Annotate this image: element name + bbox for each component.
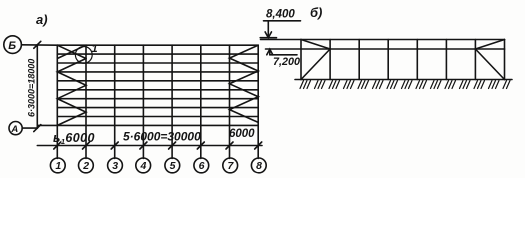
- dimension tick top: [34, 41, 41, 48]
- elevation lower chord (with left extension to 7.200 mark): [266, 48, 505, 50]
- svg-text:б): б): [310, 5, 322, 20]
- elevation left bay roof-strip diagonal: [301, 40, 330, 50]
- plan column lines 1-8 (extend down to numbered circles): [57, 45, 258, 158]
- svg-text:А: А: [10, 124, 18, 135]
- svg-text:5·6000=30000: 5·6000=30000: [123, 130, 201, 144]
- left bracing strip: zigzag diagonals: [57, 59, 86, 126]
- svg-text:2: 2: [82, 160, 89, 172]
- svg-text:8: 8: [256, 160, 262, 172]
- axis line from A circle: [22, 127, 37, 129]
- svg-text:3: 3: [112, 160, 118, 172]
- elevation ground line: [295, 79, 512, 81]
- svg-text:6000: 6000: [229, 128, 255, 140]
- elevation mark 7,200 leader stem: [269, 49, 271, 55]
- bottom dimension ticks at each column: [54, 142, 262, 149]
- elevation right bay roof-strip diagonal: [475, 40, 504, 50]
- elevation left bay wall diagonal: [301, 49, 330, 80]
- svg-text:ь16000: ь16000: [53, 131, 95, 146]
- detail callout circle 1: [75, 47, 92, 64]
- plan horizontal grid lines (10 lines): [37, 45, 258, 125]
- elevation upper chord (with left extension to 8.400 mark): [261, 39, 505, 41]
- elevation mark 8,400 shelf line: [264, 20, 301, 22]
- numbered column circles 1-8: [50, 158, 266, 173]
- elevation mark 7,200 shelf line: [270, 54, 297, 56]
- elevation mark 8,400 level line: [260, 37, 276, 39]
- svg-text:7,200: 7,200: [273, 56, 300, 68]
- bottom dimension line: [37, 145, 262, 147]
- left bracing strip: X in top cell: [57, 45, 86, 58]
- axis line from B circle: [21, 44, 57, 46]
- svg-text:6: 6: [199, 160, 205, 172]
- ground hatching strokes: [300, 81, 510, 89]
- elevation mark 8,400 leader stem: [267, 21, 269, 38]
- svg-text:8,400: 8,400: [266, 9, 295, 21]
- svg-text:Б: Б: [8, 40, 16, 52]
- svg-text:5: 5: [170, 160, 176, 172]
- elevation right bay wall diagonal: [475, 49, 504, 80]
- svg-text:1: 1: [92, 43, 98, 55]
- svg-text:6·3000=18000: 6·3000=18000: [27, 59, 37, 117]
- svg-text:а): а): [36, 12, 48, 27]
- elevation mark 8,400 arrowhead: [265, 32, 271, 38]
- axis circle B (top left): [4, 36, 22, 54]
- svg-text:4: 4: [140, 160, 147, 172]
- elevation mark 7,200 arrowhead: [267, 49, 273, 55]
- right bracing strip: zigzag diagonals: [230, 45, 259, 122]
- dimension tick bottom: [34, 125, 41, 132]
- elevation columns: [301, 40, 505, 80]
- axis circle A (bottom left): [9, 122, 22, 135]
- svg-text:1: 1: [55, 160, 61, 172]
- left vertical dimension line: [36, 45, 38, 129]
